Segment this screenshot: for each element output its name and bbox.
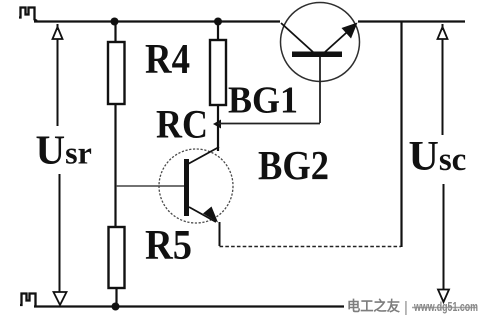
Usc arrow up [438, 24, 448, 39]
wire R4 top lead [114, 21, 116, 42]
wire Usr lower segment [59, 174, 61, 292]
wire emitter to right rail dashed [220, 246, 402, 248]
node junction top-middle [214, 18, 222, 26]
wire top rail [34, 20, 280, 22]
wire RC bottom lead [217, 105, 219, 151]
transistor BG2 [116, 147, 233, 223]
svg-text:BG2: BG2 [258, 142, 329, 188]
node arrow at RC junction [213, 120, 221, 129]
wire Usc lower segment [443, 184, 445, 289]
wire Usr upper segment [57, 39, 59, 126]
square wave input symbol bottom [20, 294, 36, 307]
Usc arrow down [438, 290, 449, 303]
wire bottom rail under watermark [412, 307, 477, 309]
wire R4 bottom to R5 top [114, 104, 116, 227]
svg-text:RC: RC [156, 102, 208, 147]
wire bottom rail [34, 305, 344, 307]
svg-text:R4: R4 [145, 37, 190, 83]
svg-text:R5: R5 [145, 223, 192, 269]
svg-text:电工之友: 电工之友 [347, 298, 400, 314]
wire BG2 emitter vertical [219, 222, 221, 246]
node junction top-left [111, 18, 119, 26]
wire top rail right of BG1 [358, 20, 465, 22]
square wave input symbol top [19, 8, 37, 22]
svg-text:BG1: BG1 [228, 80, 298, 122]
resistor R5 [109, 227, 125, 288]
wire BG2 collector vertical [217, 124, 219, 150]
wire Usc upper segment [442, 39, 444, 135]
node junction bottom [112, 303, 120, 311]
resistor RC [210, 40, 226, 105]
wire BG1 base horizontal [218, 123, 320, 125]
wire right vertical rail [400, 22, 402, 247]
Usr source arrow up [53, 24, 63, 39]
transistor BG1 [281, 3, 360, 124]
resistor R4 [108, 42, 125, 104]
svg-text:|: | [404, 299, 408, 316]
svg-text:www.dg51.com: www.dg51.com [413, 300, 478, 314]
Usr source arrow down [54, 292, 67, 305]
wire R5 bottom lead [115, 288, 117, 307]
wire RC top lead [217, 21, 219, 40]
